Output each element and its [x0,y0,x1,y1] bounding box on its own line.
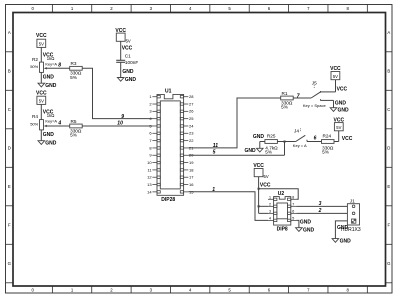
svg-text:4: 4 [269,216,271,220]
svg-text:R1: R1 [282,91,288,96]
svg-text:5: 5 [213,150,216,156]
svg-text:25: 25 [189,116,194,121]
svg-text:J1: J1 [350,198,355,203]
svg-text:17: 17 [189,175,194,180]
svg-text:Key = Space: Key = Space [303,103,327,108]
svg-text:5%: 5% [281,105,288,110]
svg-text:Key=A: Key=A [45,119,57,124]
svg-text:5V: 5V [333,74,338,79]
svg-text:GND: GND [45,83,57,89]
svg-text:5V: 5V [336,125,341,130]
svg-text:27: 27 [189,101,194,106]
svg-text:VCC: VCC [342,136,353,142]
svg-text:Key=A: Key=A [45,61,57,66]
svg-text:C1: C1 [125,54,131,59]
svg-text:4: 4 [57,120,61,126]
svg-text:E: E [8,184,11,189]
svg-text:5V: 5V [264,174,269,179]
svg-text:8: 8 [58,63,61,69]
svg-text:GND: GND [340,238,352,244]
svg-text:GND: GND [253,134,265,140]
svg-text:13: 13 [147,182,152,187]
svg-text:11: 11 [213,143,218,149]
svg-text:9: 9 [121,114,124,120]
svg-text:5V: 5V [126,39,131,44]
svg-text:R24: R24 [323,134,332,139]
svg-text:R4: R4 [32,114,38,119]
svg-text:GND: GND [122,69,133,75]
svg-text:24: 24 [189,123,194,128]
svg-text:VCC: VCC [260,183,271,189]
svg-text:A: A [8,30,11,35]
svg-text:18: 18 [189,167,194,172]
svg-text:R3: R3 [71,61,77,66]
svg-text:6: 6 [292,209,294,213]
svg-text:1: 1 [212,187,215,193]
svg-text:GND: GND [300,220,312,226]
svg-text:10: 10 [117,120,123,126]
svg-text:D: D [8,146,11,151]
svg-text:2: 2 [318,208,322,214]
svg-text:C: C [8,107,11,112]
svg-text:R2: R2 [32,57,38,62]
svg-text:U1: U1 [165,89,172,95]
svg-text:3: 3 [269,209,271,213]
svg-text:B: B [387,69,390,74]
svg-text:5V: 5V [39,42,44,47]
svg-text:8: 8 [292,195,294,199]
svg-text:2: 2 [269,202,271,206]
svg-text:50%: 50% [30,64,38,69]
svg-text:1: 1 [269,195,271,199]
svg-text:VCC: VCC [337,87,348,93]
svg-text:DIP8: DIP8 [277,227,288,233]
svg-text:GND: GND [125,77,136,83]
svg-text:16: 16 [189,182,194,187]
svg-text:3: 3 [319,201,322,207]
svg-text:GND: GND [244,148,256,154]
svg-text:5%: 5% [322,150,329,155]
svg-text:GND: GND [303,227,315,233]
svg-text:F: F [387,223,390,228]
svg-text:GND: GND [335,100,347,106]
svg-text:12: 12 [147,175,152,180]
svg-text:GND: GND [337,225,349,231]
svg-text:5%: 5% [70,75,77,80]
svg-text:26: 26 [189,109,194,114]
svg-text:14: 14 [147,189,152,194]
svg-text:10: 10 [147,160,152,165]
svg-text:5: 5 [292,216,294,220]
svg-text:100nF: 100nF [125,60,138,65]
svg-text:B: B [8,69,11,74]
svg-text:C: C [387,107,390,112]
svg-text:F: F [8,223,11,228]
svg-text:50%: 50% [30,121,38,126]
svg-text:28: 28 [189,94,194,99]
svg-text:1kΩ: 1kΩ [47,56,55,61]
svg-text:E: E [387,184,390,189]
svg-text:23: 23 [189,131,194,136]
svg-text:R25: R25 [267,134,276,139]
svg-text:J4: J4 [294,129,299,134]
svg-text:7: 7 [292,202,294,206]
svg-text:VCC: VCC [36,33,47,39]
svg-text:GND: GND [45,140,57,146]
svg-text:U2: U2 [278,191,285,197]
svg-text:GND: GND [43,132,55,138]
svg-text:VCC: VCC [122,45,133,51]
svg-text:VCC: VCC [36,90,47,96]
svg-text:A: A [387,30,390,35]
svg-text:DIP28: DIP28 [161,197,175,203]
svg-text:GND: GND [338,107,350,113]
svg-text:19: 19 [189,160,194,165]
svg-text:Key = A: Key = A [293,143,307,148]
svg-text:5V: 5V [39,99,44,104]
svg-text:R5: R5 [71,119,77,124]
svg-text:7: 7 [297,94,300,100]
svg-text:GND: GND [43,74,55,80]
svg-text:5%: 5% [70,133,77,138]
svg-text:J5: J5 [312,81,317,86]
svg-text:6: 6 [314,135,317,141]
svg-text:22: 22 [189,138,194,143]
svg-text:5%: 5% [265,150,272,155]
svg-text:1kΩ: 1kΩ [47,113,55,118]
svg-text:D: D [387,146,390,151]
